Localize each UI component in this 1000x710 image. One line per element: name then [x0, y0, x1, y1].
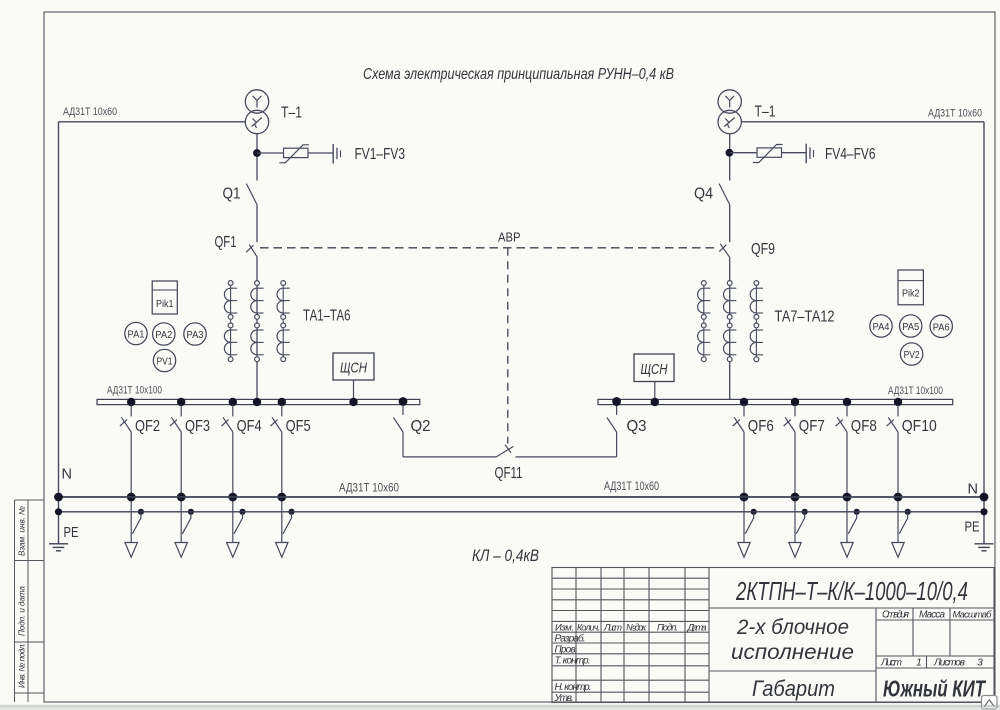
transformer T-1 (left) — [245, 90, 268, 134]
ammeter PA6 — [930, 315, 952, 337]
svg-text:Лист: Лист — [880, 658, 902, 669]
node: bus dots left — [127, 398, 135, 406]
wire: top bus left АД31Т 10х60 — [59, 121, 246, 123]
svg-text:Q4: Q4 — [694, 186, 713, 203]
svg-text:Q2: Q2 — [411, 418, 431, 435]
svg-text:QF7: QF7 — [799, 418, 825, 435]
title block texts — [554, 578, 993, 704]
svg-text:Взам. инв. №: Взам. инв. № — [18, 506, 27, 556]
circuit breaker QF8 feeder — [836, 405, 847, 543]
circuit breaker QF6 feeder — [733, 405, 744, 543]
wire: QF2 PE tap — [132, 513, 141, 534]
wire: QF6 PE tap — [745, 513, 754, 534]
svg-text:АД31Т 10х60: АД31Т 10х60 — [604, 481, 659, 493]
decorative — [0, 705, 1000, 708]
svg-text:№док.: №док. — [626, 623, 647, 634]
left attachment strip (Взам. инв. № / Подп. и дата / Инв. № подл.) — [15, 500, 45, 702]
node: QF7 dot on N bus — [791, 493, 800, 502]
wire: riser QF9 to bus — [729, 257, 731, 399]
circuit breaker QF10 feeder — [887, 405, 898, 543]
node: QF2 dot on N bus — [127, 493, 136, 502]
wire: riser between Q4 and QF9 — [729, 205, 731, 243]
svg-text:Н. контр.: Н. контр. — [555, 682, 592, 693]
meter box Pik2 — [898, 270, 923, 305]
wire: left downcomer — [58, 122, 60, 544]
svg-text:АД31Т 10х100: АД31Т 10х100 — [888, 385, 943, 397]
node: QF10 dot on N bus — [894, 493, 903, 502]
svg-text:РА3: РА3 — [187, 329, 204, 341]
feeder arrow QF5 — [276, 543, 288, 558]
svg-text:Изм.: Изм. — [555, 623, 574, 634]
svg-text:QF5: QF5 — [286, 418, 311, 435]
svg-text:Подп.: Подп. — [657, 623, 678, 634]
svg-text:РЕ: РЕ — [64, 525, 79, 541]
node: QF5 dot on N bus — [277, 493, 286, 502]
svg-text:QF1: QF1 — [215, 234, 237, 251]
node: QF2 PE tap dot — [138, 509, 144, 515]
svg-text:исполнение: исполнение — [731, 641, 854, 664]
node: QF3 PE tap dot — [188, 509, 194, 515]
svg-text:КЛ – 0,4кВ: КЛ – 0,4кВ — [472, 547, 539, 565]
node: QF3 dot on N bus — [177, 493, 186, 502]
svg-text:Подп. и дата: Подп. и дата — [18, 586, 27, 636]
svg-text:Q1: Q1 — [223, 186, 241, 203]
tie breaker QF11 — [496, 445, 513, 457]
disconnector Q2 — [393, 397, 407, 457]
wire: QF7 PE tap — [796, 513, 805, 534]
surge arrester FV4-FV6 branch — [730, 144, 814, 164]
busbar АД31Т 10х100 (left) — [97, 399, 420, 404]
svg-text:Габарит: Габарит — [752, 676, 835, 701]
surge arrester FV1-FV3 branch — [257, 144, 341, 164]
box ЩСН (left) — [333, 353, 374, 400]
node: QF10 PE tap dot — [905, 509, 911, 515]
wire: АВР dashed control line (vertical to QF11) — [507, 248, 509, 444]
feeder arrow QF3 — [175, 543, 187, 558]
svg-text:QF9: QF9 — [751, 241, 775, 258]
svg-text:N: N — [968, 482, 978, 498]
svg-text:ТА1–ТА6: ТА1–ТА6 — [303, 308, 351, 325]
wire: PE bus — [59, 511, 985, 513]
svg-text:QF3: QF3 — [185, 418, 210, 435]
node: QF5 PE tap dot — [288, 509, 294, 515]
current transformers TA7-TA12 — [698, 281, 763, 362]
svg-text:Схема электрическая принципиал: Схема электрическая принципиальная РУНН–… — [363, 66, 674, 83]
disconnector Q4 — [719, 184, 730, 205]
wire: right downcomer — [983, 122, 985, 544]
ammeter PA3 — [184, 323, 206, 345]
wire: QF8 PE tap — [848, 513, 857, 534]
node: junction dot right — [726, 149, 734, 157]
wire: riser QF1 to bus — [256, 257, 258, 400]
svg-text:Т. контр.: Т. контр. — [555, 656, 591, 667]
wire: tie line QF11 to Q3 — [516, 456, 617, 458]
busbar АД31Т 10х100 (right) — [598, 399, 953, 404]
circuit breaker QF7 feeder — [784, 405, 795, 543]
svg-text:PV2: PV2 — [904, 349, 920, 361]
title block (основная надпись) — [552, 568, 994, 703]
ammeter PA5 — [900, 315, 922, 337]
svg-text:Pik2: Pik2 — [902, 288, 920, 300]
svg-text:QF2: QF2 — [135, 418, 160, 435]
node: bus dots right — [612, 397, 621, 406]
wire: top bus right АД31Т 10х60 — [741, 121, 984, 123]
svg-text:PV1: PV1 — [157, 356, 173, 368]
wire: riser between Q1 and QF1 — [256, 205, 258, 243]
svg-text:АД31Т 10х60: АД31Т 10х60 — [928, 108, 982, 120]
transformer T-1 (right) — [718, 90, 741, 134]
current transformers TA1-TA6 — [224, 281, 289, 362]
box ЩСН (right) — [634, 354, 674, 400]
svg-text:Южный КИТ: Южный КИТ — [883, 676, 986, 702]
wire: QF4 PE tap — [234, 513, 243, 534]
feeder arrow QF7 — [789, 543, 801, 558]
node: PE bus end dots — [55, 508, 62, 515]
circuit breaker QF2 feeder — [120, 405, 131, 543]
svg-text:РА5: РА5 — [902, 321, 919, 333]
wire: АВР dashed control line (horizontal) — [260, 247, 718, 249]
wire: N bus — [59, 496, 985, 498]
svg-text:Q3: Q3 — [627, 418, 647, 435]
disconnector Q3 — [607, 397, 621, 457]
circuit breaker QF1 — [246, 245, 257, 257]
svg-text:РА4: РА4 — [873, 321, 890, 333]
wire: QF5 PE tap — [283, 513, 292, 534]
node: junction dot left — [253, 149, 261, 157]
circuit breaker QF3 feeder — [170, 405, 181, 543]
svg-text:QF6: QF6 — [748, 418, 774, 435]
wire: QF3 PE tap — [182, 513, 191, 534]
disconnector Q1 — [246, 184, 257, 205]
node: QF7 PE tap dot — [802, 509, 808, 515]
svg-text:АД31Т 10х60: АД31Т 10х60 — [63, 106, 117, 118]
watermark logo — [982, 696, 998, 710]
svg-text:QF10: QF10 — [902, 418, 937, 435]
svg-text:РЕ: РЕ — [965, 520, 980, 536]
svg-text:1: 1 — [916, 657, 922, 669]
svg-text:Масса: Масса — [919, 610, 945, 621]
voltmeter PV1 — [153, 349, 175, 371]
svg-text:FV4–FV6: FV4–FV6 — [825, 146, 876, 163]
node: QF6 dot on N bus — [740, 493, 749, 502]
node: QF8 dot on N bus — [843, 493, 852, 502]
ground (left) — [49, 544, 68, 551]
node: QF6 PE tap dot — [751, 509, 757, 515]
svg-text:FV1–FV3: FV1–FV3 — [355, 146, 406, 163]
feeder arrow QF2 — [125, 543, 137, 558]
svg-text:ТА7–ТА12: ТА7–ТА12 — [775, 309, 835, 326]
wire: main riser left upper — [256, 133, 258, 180]
ammeter PA4 — [870, 315, 892, 337]
svg-text:Т–1: Т–1 — [755, 104, 776, 121]
node: QF4 dot on N bus — [228, 493, 237, 502]
node: QF4 PE tap dot — [239, 509, 245, 515]
svg-text:Стадия: Стадия — [882, 610, 910, 621]
node: QF8 PE tap dot — [854, 509, 860, 515]
feeder arrow QF8 — [841, 543, 853, 558]
svg-text:ЩСН: ЩСН — [641, 362, 668, 378]
wire: main riser right upper — [729, 133, 731, 180]
svg-text:АД31Т 10х60: АД31Т 10х60 — [339, 483, 399, 495]
svg-text:РА6: РА6 — [933, 321, 950, 333]
svg-text:АВР: АВР — [498, 230, 521, 245]
wire: tie line Q2 to QF11 — [403, 456, 496, 458]
svg-text:Pik1: Pik1 — [156, 298, 174, 310]
ground (right) — [975, 544, 994, 551]
circuit breaker QF5 feeder — [271, 405, 282, 543]
svg-text:РА1: РА1 — [128, 329, 145, 341]
svg-text:2КТПН–Т–К/К–1000–10/0,4: 2КТПН–Т–К/К–1000–10/0,4 — [735, 578, 968, 606]
svg-text:QF4: QF4 — [237, 418, 262, 435]
svg-text:Пров.: Пров. — [555, 644, 578, 655]
wire: QF10 PE tap — [899, 513, 908, 534]
svg-text:Колич.: Колич. — [577, 623, 600, 633]
circuit breaker QF4 feeder — [222, 405, 233, 543]
svg-text:Листов: Листов — [933, 658, 965, 669]
feeder arrow QF4 — [227, 543, 239, 558]
svg-text:Утв.: Утв. — [554, 693, 574, 704]
svg-text:РА2: РА2 — [155, 329, 172, 341]
svg-text:Масштаб: Масштаб — [953, 610, 993, 621]
svg-text:2-х блочное: 2-х блочное — [736, 616, 849, 639]
svg-text:Разраб.: Разраб. — [555, 633, 586, 645]
svg-text:N: N — [62, 467, 72, 483]
feeder arrow QF6 — [738, 543, 750, 558]
meter box Pik1 — [152, 281, 177, 314]
svg-text:АД31Т 10х100: АД31Т 10х100 — [107, 385, 162, 397]
svg-text:Лист: Лист — [603, 623, 622, 634]
ammeter PA1 — [125, 322, 147, 344]
svg-text:QF8: QF8 — [851, 418, 877, 435]
svg-text:3: 3 — [977, 657, 983, 669]
circuit breaker QF9 — [719, 244, 729, 258]
node: N bus end dots — [54, 493, 63, 502]
svg-text:ЩСН: ЩСН — [340, 361, 367, 377]
voltmeter PV2 — [900, 343, 922, 365]
svg-text:Т–1: Т–1 — [281, 105, 302, 122]
svg-text:QF11: QF11 — [495, 465, 523, 482]
svg-text:Дата: Дата — [687, 623, 707, 634]
ammeter PA2 — [153, 323, 175, 345]
svg-text:Инв. № подл.: Инв. № подл. — [18, 643, 27, 688]
feeder arrow QF10 — [892, 543, 904, 558]
